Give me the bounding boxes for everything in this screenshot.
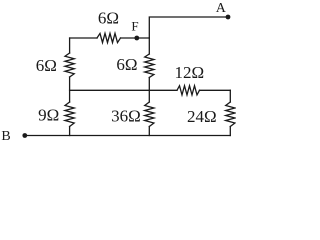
svg-text:6Ω: 6Ω	[98, 8, 119, 27]
terminal A dot	[226, 15, 231, 20]
wire top rail from node F column to terminal A	[149, 17, 228, 38]
svg-text:6Ω: 6Ω	[36, 56, 57, 75]
wire middle column vertical segments	[148, 38, 150, 136]
svg-text:9Ω: 9Ω	[38, 106, 59, 125]
terminal B dot	[22, 133, 27, 138]
svg-text:B: B	[1, 129, 10, 144]
resistor 6ohm horizontal top	[97, 33, 121, 42]
svg-text:24Ω: 24Ω	[187, 107, 217, 126]
resistor 36ohm vertical	[145, 102, 154, 127]
svg-text:A: A	[216, 1, 227, 16]
wire third rail from left column through 12ohm to right corner	[70, 89, 231, 91]
wire left column vertical segments	[69, 38, 71, 136]
svg-text:12Ω: 12Ω	[174, 63, 204, 82]
svg-text:6Ω: 6Ω	[116, 55, 137, 74]
wire right column vertical segments	[229, 90, 231, 135]
svg-text:36Ω: 36Ω	[111, 106, 141, 125]
wire second rail (F line) from left column corner to middle column	[70, 37, 150, 39]
resistor 9ohm vertical	[65, 102, 74, 127]
svg-text:F: F	[131, 19, 138, 34]
resistor 6ohm vertical middle	[145, 54, 154, 78]
resistor 24ohm vertical	[226, 102, 235, 127]
wire bottom rail from terminal B to right column	[25, 135, 231, 137]
resistor 12ohm horizontal	[177, 86, 200, 95]
node F dot	[134, 36, 139, 41]
resistor 6ohm vertical left	[65, 53, 74, 77]
